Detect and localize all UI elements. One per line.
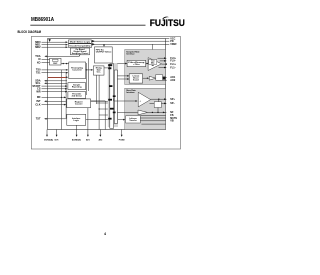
svg-text:BLOCK DIAGRAM: BLOCK DIAGRAM	[18, 30, 42, 34]
header rule	[30, 24, 145, 26]
svg-text:Interface: Interface	[126, 91, 135, 94]
analog subsystem 1 (DAC / filter) shaded box	[125, 50, 166, 85]
svg-text:Converter: Converter	[72, 69, 82, 72]
wire vbus4	[88, 58, 90, 91]
wire interface to leftover	[86, 119, 124, 121]
wire mixing to bus	[104, 67, 109, 69]
node dot on output	[158, 99, 159, 100]
red wire overlay	[48, 76, 66, 79]
block B2 Decoder Compatibility	[69, 44, 92, 48]
wire MD0	[42, 41, 68, 43]
wire RD	[42, 96, 66, 98]
arrowhead resample-mixing	[91, 69, 93, 71]
red wire into resampler (drawn as gray here, colored by overlay)	[66, 76, 68, 78]
node dot	[99, 108, 100, 109]
svg-text:FUJITSU: FUJITSU	[150, 18, 185, 28]
svg-text:Counter: Counter	[75, 103, 83, 106]
output connector blob	[163, 77, 166, 80]
wire XTAL out	[61, 63, 69, 65]
block mixing data gen	[93, 66, 104, 75]
wire CLK	[42, 104, 66, 106]
block resampling converter	[69, 62, 86, 79]
plus minus marks	[152, 64, 154, 67]
wire TS0	[42, 69, 68, 71]
block leftover transfer	[126, 116, 141, 123]
U4 output wire	[148, 111, 167, 113]
node dot	[86, 69, 87, 70]
svg-text:Interface: Interface	[126, 53, 135, 56]
node dot	[66, 91, 67, 92]
node dot	[66, 63, 67, 64]
U3 output wire 2	[150, 102, 167, 104]
interior vertical wires	[61, 58, 123, 130]
svg-text:WR: WR	[36, 90, 40, 93]
right pin labels	[170, 37, 177, 122]
wire vbus7	[91, 101, 106, 130]
node dot	[61, 97, 62, 98]
svg-text:RD: RD	[37, 96, 41, 99]
block B1 Mode Select Logic	[69, 40, 92, 43]
wire XI	[42, 58, 50, 60]
switch box	[154, 102, 161, 108]
wire filter to dac	[146, 63, 148, 65]
wire XO	[42, 62, 50, 64]
svg-text:OSC: OSC	[53, 63, 58, 65]
wire SDA	[45, 80, 67, 82]
wire START	[42, 85, 68, 87]
figure outer border	[31, 37, 180, 150]
wire MD2	[42, 46, 68, 48]
wire nf2	[141, 114, 166, 116]
svg-text:Transfer: Transfer	[129, 119, 137, 122]
svg-text:CLK: CLK	[35, 103, 40, 106]
wire bus to U3 input	[114, 99, 137, 102]
block FIFO output select	[95, 47, 113, 63]
svg-text:AO2: AO2	[170, 79, 176, 82]
wire to bus a	[97, 102, 109, 104]
block filter deemphasis	[127, 60, 146, 66]
svg-text:2nd Detect: 2nd Detect	[72, 95, 83, 98]
wire bus to feedback amp	[117, 111, 137, 113]
left pin labels	[32, 41, 41, 121]
block lineout boost	[129, 74, 142, 83]
svg-text:SP+: SP+	[170, 98, 175, 101]
wire bus to filter	[117, 63, 126, 65]
op-amp U2	[149, 76, 155, 80]
crystal oscillator box	[50, 58, 62, 65]
block register counter	[67, 99, 91, 108]
wire MD1	[42, 44, 68, 46]
svg-text:Repeating: Repeating	[72, 86, 82, 89]
data bus band	[108, 63, 118, 127]
node dot	[63, 63, 64, 64]
block B3 digital signal control	[71, 48, 90, 55]
svg-text:Sound: Sound	[133, 80, 139, 82]
driver box	[156, 75, 163, 81]
svg-text:TST: TST	[36, 118, 41, 121]
block sample repeating	[68, 83, 86, 90]
svg-text:TS1: TS1	[36, 72, 41, 75]
wire TS1	[42, 72, 68, 74]
svg-text:VB: VB	[170, 120, 174, 123]
wire vbus1	[60, 70, 62, 130]
wire w1 top VCC	[166, 38, 170, 40]
bottom pin labels	[44, 139, 125, 142]
svg-text:SP−: SP−	[170, 102, 175, 105]
svg-text:XO: XO	[37, 62, 41, 65]
bus box A	[110, 64, 114, 129]
wire vbus3	[86, 63, 88, 95]
U3 output wire 1	[151, 98, 167, 100]
wire CS	[42, 88, 68, 90]
svg-text:Mode Select Logic: Mode Select Logic	[70, 41, 91, 44]
wire TST	[45, 118, 66, 120]
bus junction marks	[108, 64, 115, 119]
wire resample to mixing	[86, 69, 93, 71]
op-amp U1	[148, 58, 161, 71]
wire to bus b	[99, 108, 109, 110]
wire switch box down	[157, 108, 159, 113]
dac box	[149, 60, 157, 65]
wire register to analog	[91, 100, 109, 102]
wire WR	[42, 91, 68, 93]
analog subsystem 2 (speaker amp) shaded box	[125, 88, 166, 129]
bottom pin stubs	[47, 108, 122, 136]
svg-text:AGND(S): AGND(S)	[72, 139, 81, 142]
wire vbus5	[96, 75, 98, 104]
bus box B	[114, 70, 117, 124]
block preamble detect	[68, 92, 86, 99]
op-amp U3 power amp	[138, 92, 150, 107]
wire vbus2	[65, 73, 67, 119]
wire block2 to FIFO	[103, 44, 105, 45]
wire w3 branch to DAC subsystem	[152, 44, 154, 57]
svg-text:4: 4	[104, 232, 106, 236]
wire w2	[91, 40, 169, 42]
svg-text:OUTPUT Select: OUTPUT Select	[96, 51, 112, 54]
arrowheads for left pins	[44, 41, 80, 119]
svg-text:VREF: VREF	[170, 43, 177, 46]
left pin wires	[42, 42, 80, 119]
block interface logic	[67, 114, 86, 125]
node dot	[157, 112, 158, 113]
wire to bus c	[99, 114, 109, 116]
op-amp U1 output wires	[158, 58, 167, 67]
feedback amp U4	[138, 110, 148, 115]
wire into switch box	[158, 99, 160, 102]
svg-text:FL1−: FL1−	[170, 66, 176, 69]
op-amp U2 output wires	[163, 76, 167, 78]
wires bus to lineout	[117, 75, 128, 77]
svg-text:Decoder/Compatibility: Decoder/Compatibility	[70, 44, 92, 47]
svg-text:Logic: Logic	[74, 120, 80, 122]
svg-text:DGND(A): DGND(A)	[44, 139, 53, 142]
wires leftover to pins	[140, 118, 165, 124]
svg-text:Gen.: Gen.	[97, 72, 102, 74]
wire SCL	[45, 82, 67, 84]
wire lineout to u2	[143, 77, 149, 79]
wire vbus6	[98, 75, 100, 129]
svg-text:MB86901A: MB86901A	[31, 17, 54, 23]
wire INT	[45, 100, 66, 102]
IC box	[48, 39, 166, 130]
svg-text:Sampling Control: Sampling Control	[72, 52, 89, 55]
svg-text:+ Filter: + Filter	[133, 63, 140, 66]
wire w3	[91, 43, 169, 45]
svg-text:MD2: MD2	[35, 46, 41, 49]
svg-text:PGND: PGND	[119, 140, 125, 142]
wire TOA out	[45, 55, 79, 56]
